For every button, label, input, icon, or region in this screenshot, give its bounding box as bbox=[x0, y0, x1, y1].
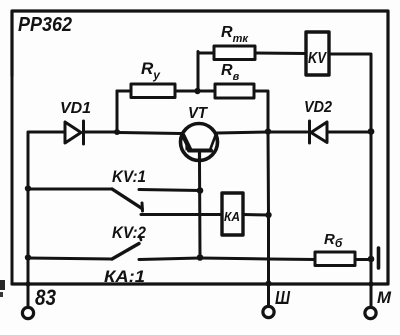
diode VD1 bbox=[65, 121, 84, 144]
emitter arrowhead VT bbox=[186, 138, 192, 150]
wire right bus down bbox=[370, 131, 373, 307]
svg-text:Rтк: Rтк bbox=[221, 24, 249, 45]
wire KA right bbox=[243, 213, 269, 217]
wire VD2 to right bus bbox=[327, 131, 371, 134]
svg-text:КА:1: КА:1 bbox=[104, 267, 145, 286]
wire emitter vertical bbox=[198, 162, 202, 258]
wire node up to Rtk bbox=[198, 52, 214, 92]
wire Ry to node bbox=[175, 90, 197, 93]
node: KV1 left on bus bbox=[25, 185, 31, 191]
wire Rv bus down to KA row bbox=[267, 131, 271, 215]
terminal 83 bbox=[22, 307, 33, 318]
svg-text:Rу: Rу bbox=[141, 59, 161, 82]
svg-text:М: М bbox=[377, 288, 392, 307]
wire row E to Rb bbox=[200, 258, 315, 260]
switch KV:2 blade bbox=[112, 244, 139, 260]
svg-text:Rб: Rб bbox=[324, 231, 343, 250]
wire junction to transistor base bbox=[117, 133, 181, 134]
switch KV:1 blade bbox=[112, 189, 142, 209]
svg-text:KV:1: KV:1 bbox=[112, 167, 146, 186]
wire VD1 row bbox=[28, 131, 65, 134]
wire KV to right corner down bbox=[329, 54, 371, 131]
svg-text:Rв: Rв bbox=[221, 62, 240, 83]
wire KV:2 fixed line / emitter row bbox=[139, 258, 200, 260]
wire KV:1 upper fixed contact bbox=[139, 190, 200, 191]
wire bottom bus (KA:1 row / frame bottom) bbox=[12, 282, 388, 285]
wire terminal 83 stub bbox=[27, 284, 30, 307]
node: junction Rv-line / collector row bbox=[265, 128, 271, 134]
svg-text:83: 83 bbox=[35, 285, 56, 310]
node: junction Rb/M bus bbox=[368, 256, 375, 263]
node: junction emitter/row E bbox=[197, 254, 204, 261]
wire Rv right corner down bbox=[254, 91, 268, 131]
wire Rb to M bus bbox=[355, 258, 371, 261]
resistor Rtk bbox=[214, 46, 255, 60]
wire Rtk to KV coil bbox=[255, 52, 306, 56]
svg-text:КА: КА bbox=[224, 209, 240, 224]
resistor Rv bbox=[215, 84, 254, 98]
wire KV:1 left line bbox=[28, 188, 112, 191]
svg-text:VD1: VD1 bbox=[60, 100, 91, 117]
svg-text:VD2: VD2 bbox=[304, 99, 332, 116]
wire KV:2 left line bbox=[28, 258, 112, 259]
node: KV2 left on bus bbox=[25, 254, 31, 260]
node: bottom crossings bbox=[25, 281, 30, 286]
wire to Ry bbox=[117, 90, 131, 93]
node: junction Ry/Rv/Rtk bbox=[194, 88, 200, 94]
wire end tick right of M junction bbox=[377, 248, 381, 268]
transistor VT bbox=[181, 124, 218, 161]
relay coil KA bbox=[222, 193, 243, 235]
node: junction VD2/right bus bbox=[368, 128, 375, 135]
wire down to Sh terminal bbox=[267, 215, 270, 306]
frame border bbox=[12, 11, 388, 283]
scan smudge left edge bbox=[0, 280, 5, 290]
diode VD2 bbox=[310, 121, 328, 143]
svg-text:РР362: РР362 bbox=[18, 14, 72, 36]
resistor Rb bbox=[315, 252, 355, 266]
svg-text:KV: KV bbox=[308, 50, 327, 67]
wire riser x117 up to Ry bbox=[116, 91, 119, 132]
wire VD1 to riser junction bbox=[84, 131, 117, 134]
svg-text:Ш: Ш bbox=[275, 288, 290, 308]
svg-text:KV:2: KV:2 bbox=[112, 223, 146, 242]
relay coil KV bbox=[306, 32, 329, 75]
svg-text:VT: VT bbox=[188, 105, 208, 122]
resistor Ry bbox=[131, 84, 175, 98]
terminal M bbox=[365, 307, 376, 318]
terminal Sh bbox=[263, 306, 274, 317]
wire left bus bbox=[27, 133, 30, 284]
node: junction VD1/Ry riser bbox=[114, 129, 120, 135]
wire node to Rv bbox=[198, 90, 215, 93]
node: junction emitter/KV1 bbox=[197, 187, 204, 194]
wire transistor right to VD2 bbox=[217, 132, 268, 133]
node: junction KA right bbox=[265, 212, 271, 218]
wire KV:1 lower contact to KA coil bbox=[141, 213, 222, 216]
